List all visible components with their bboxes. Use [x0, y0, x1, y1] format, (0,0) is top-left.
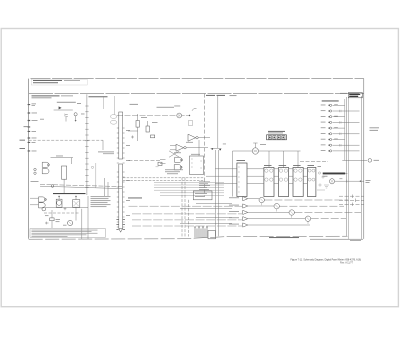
svg-text:Rev. A 11/77: Rev. A 11/77: [340, 261, 354, 264]
